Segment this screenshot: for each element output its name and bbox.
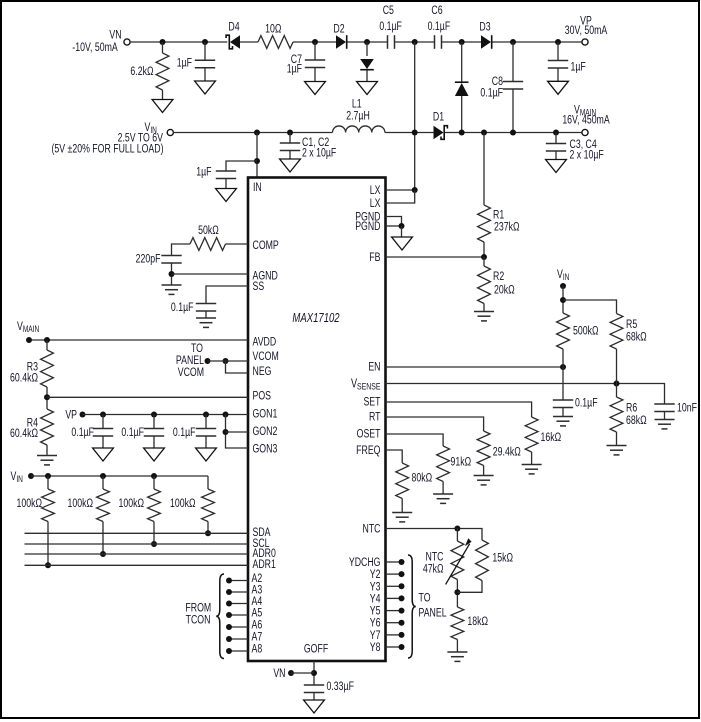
svg-text:220pF: 220pF bbox=[136, 252, 161, 266]
svg-text:100kΩ: 100kΩ bbox=[170, 497, 196, 511]
svg-text:NEG: NEG bbox=[253, 365, 272, 379]
svg-text:100kΩ: 100kΩ bbox=[67, 497, 93, 511]
svg-text:30V, 50mA: 30V, 50mA bbox=[565, 24, 608, 38]
svg-text:0.1µF: 0.1µF bbox=[575, 396, 598, 410]
svg-text:60.4kΩ: 60.4kΩ bbox=[10, 427, 38, 441]
svg-text:10nF: 10nF bbox=[677, 401, 697, 415]
svg-text:0.1µF: 0.1µF bbox=[171, 301, 194, 315]
svg-text:0.1µF: 0.1µF bbox=[428, 20, 451, 34]
svg-text:GON3: GON3 bbox=[253, 442, 278, 456]
svg-text:IN: IN bbox=[253, 181, 262, 195]
svg-text:VP: VP bbox=[65, 408, 77, 422]
svg-text:50kΩ: 50kΩ bbox=[198, 224, 219, 238]
svg-text:A8: A8 bbox=[252, 642, 263, 656]
svg-text:20kΩ: 20kΩ bbox=[494, 283, 515, 297]
svg-text:NTC: NTC bbox=[362, 522, 380, 536]
svg-text:500kΩ: 500kΩ bbox=[573, 324, 599, 338]
svg-text:VN: VN bbox=[273, 667, 285, 681]
svg-text:0.33µF: 0.33µF bbox=[327, 680, 354, 694]
svg-text:1µF: 1µF bbox=[177, 56, 192, 70]
svg-text:ADR1: ADR1 bbox=[253, 558, 276, 572]
svg-text:60.4kΩ: 60.4kΩ bbox=[10, 371, 38, 385]
svg-text:6.2kΩ: 6.2kΩ bbox=[130, 65, 153, 79]
svg-text:100kΩ: 100kΩ bbox=[16, 497, 42, 511]
svg-text:-10V, 50mA: -10V, 50mA bbox=[72, 41, 117, 55]
svg-text:D3: D3 bbox=[479, 20, 490, 34]
svg-text:1µF: 1µF bbox=[196, 165, 211, 179]
svg-text:VCOM: VCOM bbox=[178, 366, 204, 380]
svg-text:EN: EN bbox=[368, 360, 380, 374]
svg-text:0.1µF: 0.1µF bbox=[379, 20, 402, 34]
svg-text:LX: LX bbox=[370, 184, 381, 198]
svg-text:0.1µF: 0.1µF bbox=[173, 426, 196, 440]
svg-text:Y8: Y8 bbox=[370, 641, 381, 655]
svg-text:SS: SS bbox=[253, 280, 265, 294]
svg-text:RT: RT bbox=[369, 410, 381, 424]
svg-text:1µF: 1µF bbox=[571, 60, 586, 74]
svg-text:10Ω: 10Ω bbox=[265, 22, 281, 36]
svg-text:0.1µF: 0.1µF bbox=[71, 426, 94, 440]
svg-text:AVDD: AVDD bbox=[253, 335, 277, 349]
svg-text:OSET: OSET bbox=[357, 427, 381, 441]
svg-text:PGND: PGND bbox=[355, 220, 381, 234]
svg-text:0.1µF: 0.1µF bbox=[480, 86, 503, 100]
svg-text:D2: D2 bbox=[333, 22, 344, 36]
svg-text:POS: POS bbox=[253, 389, 272, 403]
svg-text:SET: SET bbox=[363, 395, 381, 409]
svg-text:D1: D1 bbox=[433, 110, 444, 124]
svg-text:C5: C5 bbox=[383, 4, 394, 18]
svg-text:VSENSE: VSENSE bbox=[351, 377, 381, 392]
svg-text:GON2: GON2 bbox=[253, 425, 278, 439]
svg-text:68kΩ: 68kΩ bbox=[626, 330, 647, 344]
svg-text:FREQ: FREQ bbox=[356, 444, 380, 458]
svg-text:VCOM: VCOM bbox=[253, 350, 279, 364]
svg-text:2.7µH: 2.7µH bbox=[346, 109, 370, 123]
svg-text:100kΩ: 100kΩ bbox=[118, 497, 144, 511]
svg-text:18kΩ: 18kΩ bbox=[467, 615, 488, 629]
svg-text:29.4kΩ: 29.4kΩ bbox=[493, 445, 521, 459]
svg-text:C6: C6 bbox=[431, 4, 442, 18]
svg-text:TCON: TCON bbox=[186, 613, 211, 627]
svg-text:2 x 10µF: 2 x 10µF bbox=[570, 148, 604, 162]
svg-text:FB: FB bbox=[369, 251, 380, 265]
svg-text:80kΩ: 80kΩ bbox=[412, 471, 433, 485]
svg-text:LX: LX bbox=[370, 197, 381, 211]
svg-text:47kΩ: 47kΩ bbox=[423, 562, 444, 576]
svg-text:R2: R2 bbox=[493, 270, 504, 284]
svg-text:91kΩ: 91kΩ bbox=[451, 455, 472, 469]
svg-text:MAX17102: MAX17102 bbox=[292, 312, 340, 326]
svg-text:GON1: GON1 bbox=[253, 407, 278, 421]
svg-text:D4: D4 bbox=[228, 20, 239, 34]
svg-text:TO: TO bbox=[419, 591, 431, 605]
svg-text:15kΩ: 15kΩ bbox=[492, 551, 513, 565]
svg-text:2 x 10µF: 2 x 10µF bbox=[302, 146, 336, 160]
svg-text:68kΩ: 68kΩ bbox=[626, 414, 647, 428]
svg-text:237kΩ: 237kΩ bbox=[494, 220, 520, 234]
svg-text:(5V ±20% FOR FULL LOAD): (5V ±20% FOR FULL LOAD) bbox=[51, 142, 163, 156]
svg-text:1µF: 1µF bbox=[287, 62, 302, 76]
svg-text:16V, 450mA: 16V, 450mA bbox=[562, 113, 609, 127]
svg-text:COMP: COMP bbox=[253, 239, 279, 253]
svg-text:GOFF: GOFF bbox=[304, 642, 328, 656]
svg-text:PANEL: PANEL bbox=[419, 606, 447, 620]
svg-text:0.1µF: 0.1µF bbox=[121, 426, 144, 440]
svg-text:16kΩ: 16kΩ bbox=[541, 431, 562, 445]
